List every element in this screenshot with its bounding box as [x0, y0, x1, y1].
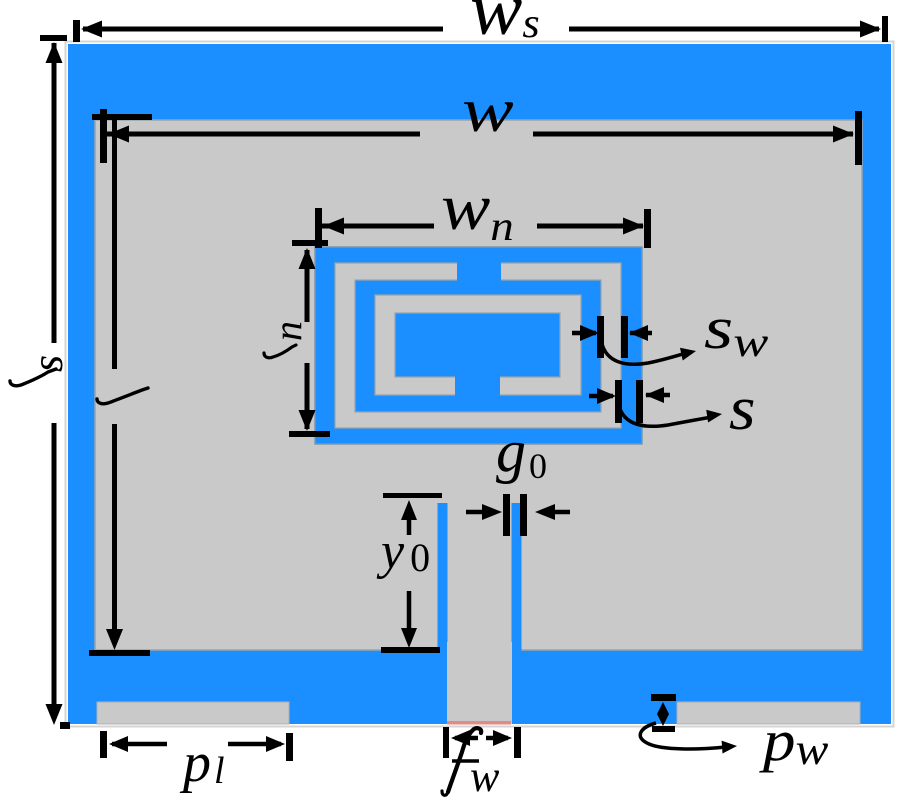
svg-text:ws: ws: [470, 0, 540, 50]
dimension s_w right arrow: [629, 325, 652, 341]
substrate outline (light border): [66, 42, 894, 727]
dimension w_n left tick: [315, 208, 322, 248]
dimension g_0 right tick: [520, 494, 527, 536]
dimension f_w right arrow: [486, 730, 512, 746]
dimension l_s line lower segment: [46, 423, 63, 725]
label p_w: [759, 709, 829, 774]
dimension w right tick: [855, 111, 862, 165]
svg-text:n: n: [265, 321, 310, 341]
dimension y_0 down arrow: [401, 591, 417, 648]
feed port (red edge): [447, 721, 511, 725]
label f_w: [442, 728, 500, 800]
dimension l_s line upper segment: [46, 42, 63, 343]
label p_l: [179, 732, 225, 794]
dimension w_s left tick: [73, 20, 80, 42]
label g_0: [496, 418, 547, 486]
SRR inner ring (gray, split bottom): [375, 295, 581, 396]
label l_s (rotated): [10, 355, 72, 386]
dimension f_w left arrow: [451, 730, 478, 746]
dimension s_w left arrow: [572, 325, 599, 341]
dimension l_s top tick: [40, 35, 67, 41]
dimension g_0 left arrow: [466, 504, 502, 520]
leader arrow p_w: [640, 723, 737, 754]
dimension l_n bottom tick: [289, 431, 330, 437]
svg-text:w: w: [462, 76, 514, 145]
SRR outer ring (gray, split top): [335, 261, 621, 428]
dimension p_l left arrow: [109, 736, 167, 752]
svg-text:s: s: [729, 375, 756, 443]
dimension w line left segment: [107, 126, 420, 143]
dimension l bottom tick: [89, 650, 150, 656]
dimension s left tick: [615, 380, 622, 423]
dimension s left arrow: [589, 388, 616, 404]
dimension f_w left tick: [443, 727, 449, 758]
dimension l line lower segment: [106, 424, 123, 650]
dimension w_s line left segment: [81, 21, 443, 38]
dimension w_s line right segment: [569, 21, 881, 38]
dimension s right arrow: [645, 387, 670, 403]
dimension p_w top bar: [651, 694, 676, 701]
label s: [729, 375, 756, 443]
inset slot right (blue): [512, 503, 522, 651]
dimension w line right segment: [533, 126, 854, 143]
dimension p_l left tick: [100, 731, 107, 758]
label w: [462, 76, 514, 145]
patch (gray radiating element): [95, 120, 862, 650]
leader arrow s: [619, 406, 722, 426]
substrate (blue dielectric): [68, 44, 891, 724]
dimension y_0 bottom tick: [381, 647, 440, 653]
dimension p_l right arrow: [228, 736, 285, 752]
dimension l_n line upper segment: [299, 248, 316, 322]
dimension l_n line lower segment: [299, 363, 316, 431]
leader arrow s_w: [602, 344, 696, 364]
dimension f_w right tick: [514, 727, 521, 758]
dimension w_n line left segment: [322, 218, 434, 235]
inset slot left (blue): [438, 503, 448, 651]
dimension l_s bottom tick: [60, 722, 70, 729]
label y_0: [376, 523, 430, 580]
dimension y_0 up arrow: [401, 500, 417, 535]
label s_w: [704, 294, 769, 366]
label w_s: [470, 0, 540, 50]
dimension s right tick: [636, 380, 643, 423]
dimension s_w right tick: [621, 316, 628, 358]
svg-text:s: s: [23, 355, 72, 372]
dimension w_s right tick: [882, 16, 888, 42]
dimension s_w left tick: [597, 316, 604, 358]
dimension w_n right tick: [644, 209, 651, 248]
label l_n (rotated): [264, 321, 310, 358]
svg-text:pl: pl: [179, 732, 225, 794]
label l (rotated): [97, 388, 148, 404]
dimension p_w double arrow: [657, 702, 669, 726]
dimension l line upper segment: [112, 120, 117, 369]
dimension p_l right tick: [286, 733, 293, 761]
dimension g_0 right arrow: [535, 504, 570, 520]
feed line (gray microstrip): [447, 642, 512, 724]
dimension l_n top tick: [292, 240, 328, 246]
dimension p_w bottom bar: [652, 726, 675, 732]
notch p right (gray): [677, 702, 860, 724]
dimension g_0 left tick: [503, 494, 510, 536]
dimension l top tick: [92, 114, 152, 120]
notch p left (gray): [97, 702, 289, 724]
dimension y_0 top tick: [383, 493, 442, 498]
SRR block (blue): [315, 247, 642, 444]
label w_n: [441, 172, 514, 250]
dimension w_n line right segment: [537, 218, 644, 235]
svg-text:w: w: [470, 752, 500, 800]
dimension w left tick: [100, 109, 107, 163]
